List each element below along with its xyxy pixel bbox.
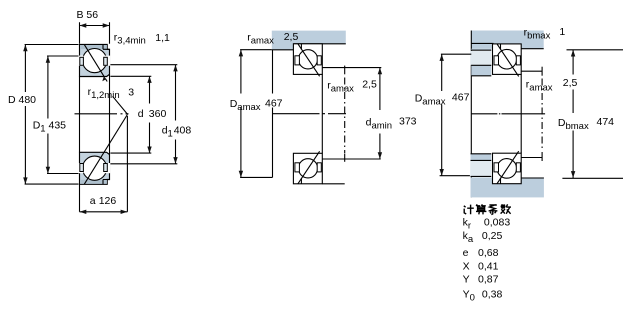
ball top bbox=[83, 49, 107, 73]
d arrows bbox=[147, 76, 151, 83]
housing shoulder band top right bbox=[471, 31, 543, 49]
D arrows bbox=[23, 45, 27, 52]
band top edge right portion bottom bbox=[521, 177, 544, 179]
column cross line bbox=[471, 42, 493, 44]
header glyph xi (ç³») bbox=[489, 205, 498, 215]
B arrow left bbox=[80, 23, 87, 27]
D1 dimension line bbox=[47, 56, 79, 174]
left notch rect bottom block bbox=[80, 164, 84, 172]
shoulder step tick top right fig bbox=[500, 44, 502, 50]
da top extension line bbox=[322, 67, 381, 69]
right notch gap top block bbox=[104, 56, 111, 66]
svg-text:2,5: 2,5 bbox=[563, 77, 578, 89]
svg-text:a: a bbox=[90, 195, 96, 207]
B dimension line bbox=[80, 25, 110, 27]
abutment column top piece bbox=[471, 49, 491, 51]
svg-text:0,25: 0,25 bbox=[482, 230, 503, 242]
Da dimension line bbox=[240, 50, 272, 178]
contact angle line top middle bbox=[298, 44, 320, 77]
left notch gap top block bbox=[78, 56, 84, 66]
ball bottom right fig bbox=[497, 159, 517, 179]
left notch gap bottom block bbox=[78, 163, 84, 173]
a dimension line bbox=[80, 211, 128, 213]
shoulder step tick bottom middle bbox=[300, 178, 302, 184]
abutment column lower piece top bbox=[471, 65, 491, 76]
Db dimension line bbox=[562, 50, 623, 179]
B dimension extension lines bbox=[80, 22, 110, 44]
column notch shelf line top bbox=[471, 49, 491, 51]
D1 arrows bbox=[46, 56, 50, 63]
ball bottom middle bbox=[298, 159, 317, 178]
svg-text:0,41: 0,41 bbox=[478, 260, 499, 272]
header glyph suan (ç®) bbox=[476, 204, 486, 214]
ring face dash-dot vertical middle bbox=[344, 66, 346, 75]
notch rects top middle bbox=[295, 56, 300, 65]
svg-text:D 480: D 480 bbox=[8, 94, 36, 106]
d dimension line bbox=[110, 76, 151, 153]
bearing outline bottom middle bbox=[293, 153, 322, 184]
B arrow right bbox=[103, 23, 110, 27]
d1 dimension line bbox=[110, 65, 177, 164]
Da arrows bbox=[239, 50, 243, 57]
svg-text:3: 3 bbox=[128, 86, 134, 98]
svg-text:0,083: 0,083 bbox=[484, 217, 510, 229]
ball top middle bbox=[298, 50, 317, 69]
column piece edges bottom bbox=[471, 154, 492, 161]
column light notch top bbox=[470, 51, 491, 65]
svg-text:474: 474 bbox=[597, 116, 615, 128]
notch rects bottom middle bbox=[295, 163, 300, 172]
column piece edges top bbox=[471, 65, 491, 76]
corner piece separation lines top block bbox=[103, 45, 110, 50]
bearing right face vertical middle bbox=[321, 74, 323, 153]
bearing outline bottom right fig bbox=[493, 153, 522, 184]
outer+inner ring top block bbox=[80, 45, 110, 77]
shaft surface line middle bbox=[322, 183, 344, 185]
svg-text:1,1: 1,1 bbox=[155, 32, 170, 44]
svg-text:0,68: 0,68 bbox=[478, 247, 499, 259]
svg-text:467: 467 bbox=[452, 92, 470, 104]
svg-text:373: 373 bbox=[399, 116, 417, 128]
contact angle line top right fig bbox=[497, 44, 519, 77]
axis centerline middle figure bbox=[273, 113, 347, 115]
axis centerline left figure bbox=[75, 113, 129, 115]
abutment column bottom piece bbox=[471, 154, 492, 161]
contact angle line bottom right fig bbox=[497, 151, 519, 184]
svg-text:126: 126 bbox=[99, 195, 117, 207]
rb bottom extension line bbox=[521, 157, 542, 159]
left notch rect top block bbox=[80, 57, 84, 65]
Da arrows right fig bbox=[440, 54, 444, 61]
a dimension extension lines bbox=[80, 116, 128, 212]
da dimension line bbox=[379, 68, 381, 159]
bottom block darker chamfer strip bbox=[80, 180, 107, 184]
column notch shelf line bottom bbox=[471, 175, 492, 177]
right notch rect bottom block bbox=[104, 164, 108, 172]
bearing outline top middle bbox=[293, 44, 322, 75]
axis centerline right figure bbox=[471, 113, 545, 115]
band bottom edge right portion bbox=[521, 48, 544, 50]
Db arrows bbox=[571, 50, 575, 57]
svg-text:360: 360 bbox=[149, 108, 167, 120]
right notch gap bottom block bbox=[104, 163, 111, 173]
header glyph shu (æ°) bbox=[501, 204, 511, 214]
bearing right face vertical right fig bbox=[520, 74, 522, 153]
a arrows bbox=[80, 210, 87, 214]
svg-text:2,5: 2,5 bbox=[362, 79, 377, 91]
housing shoulder bar bbox=[272, 31, 346, 50]
corner piece separation lines bottom block bbox=[103, 180, 110, 185]
svg-text:d: d bbox=[138, 108, 144, 120]
bearing outline top right fig bbox=[493, 44, 522, 75]
r leader arrowhead bbox=[102, 76, 106, 81]
svg-text:408: 408 bbox=[174, 125, 192, 137]
bearing top edge extension under bar bbox=[293, 43, 346, 45]
shoulder step tick bottom right fig bbox=[500, 178, 502, 184]
shoulder lip bottom edge bbox=[272, 49, 294, 51]
column left edge vertical bbox=[470, 31, 472, 198]
svg-text:e: e bbox=[463, 247, 469, 259]
Da dimension line right fig bbox=[440, 54, 472, 176]
contact angle line bottom bbox=[84, 115, 127, 185]
ball bottom bbox=[83, 156, 107, 180]
shaft shoulder band bottom right bbox=[471, 177, 544, 197]
d1 arrows bbox=[173, 65, 177, 72]
notch rects top right fig bbox=[494, 56, 499, 65]
D dimension line bbox=[25, 45, 79, 185]
rb top extension line bbox=[521, 70, 542, 72]
svg-text:2,5: 2,5 bbox=[284, 31, 299, 43]
right notch rect top block bbox=[104, 57, 108, 65]
bottom block bbox=[80, 152, 110, 184]
housing bore vertical line (with text gap) bbox=[272, 50, 274, 178]
shoulder step tick top middle bbox=[300, 44, 302, 50]
ring face dash-dot vertical right fig bbox=[541, 67, 543, 76]
contact angle line bottom middle bbox=[298, 151, 320, 184]
svg-text:B 56: B 56 bbox=[77, 9, 99, 21]
column light notch bottom bbox=[470, 161, 491, 176]
da bottom extension line bbox=[322, 158, 380, 160]
da arrows bbox=[378, 68, 382, 75]
bore side vertical lines between blocks bbox=[80, 74, 110, 154]
top block darker chamfer strip bbox=[80, 45, 107, 49]
svg-text:X: X bbox=[463, 260, 470, 272]
header glyph ji (è®¡) bbox=[464, 205, 474, 215]
svg-text:1: 1 bbox=[559, 26, 565, 38]
ball top right fig bbox=[497, 49, 517, 69]
notch rects bottom right fig bbox=[494, 163, 499, 172]
contact angle line top (with arrow + gap for text) bbox=[84, 45, 127, 115]
svg-text:Y: Y bbox=[463, 274, 470, 286]
svg-text:0,38: 0,38 bbox=[482, 289, 503, 301]
svg-text:0,87: 0,87 bbox=[478, 274, 499, 286]
svg-text:467: 467 bbox=[265, 97, 283, 109]
